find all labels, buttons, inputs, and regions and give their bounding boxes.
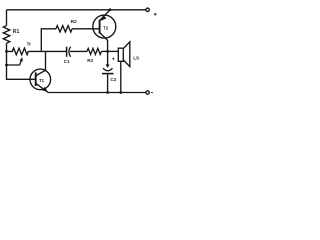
left vertical wire xyxy=(6,10,8,26)
wire R2 drop xyxy=(41,29,56,52)
svg-text:R2: R2 xyxy=(71,19,77,25)
capacitor C2 lead from node C xyxy=(107,51,109,66)
speaker LS horn xyxy=(123,42,130,67)
wire T1 collector riser xyxy=(45,51,47,70)
resistor R3 xyxy=(87,48,102,54)
T1 emitter diagonal xyxy=(36,83,48,92)
capacitor C2 curved plate xyxy=(103,68,113,71)
trimmer resistor Tr body xyxy=(7,48,29,55)
wire node C to speaker xyxy=(108,50,119,52)
wire R2 to T2 base xyxy=(72,28,100,30)
transistor T1 circle xyxy=(30,69,51,90)
C2 polarity plus mark xyxy=(112,58,115,61)
wire node A down to node B xyxy=(6,51,8,65)
Tr wiper arm wire xyxy=(7,59,23,65)
capacitor C1 left plate xyxy=(66,47,68,57)
T2 emitter diagonal xyxy=(100,10,110,21)
capacitor C1 curved plate xyxy=(69,47,71,57)
positive supply terminal xyxy=(146,8,149,11)
bottom rail junction dot speaker xyxy=(119,91,122,94)
wire node B down and right to T1 base xyxy=(7,65,36,79)
svg-text:R1: R1 xyxy=(13,29,20,35)
negative supply terminal xyxy=(146,91,149,94)
T1 emitter arrowhead xyxy=(42,87,48,92)
T2 emitter arrowhead xyxy=(101,15,107,21)
C2 lead arrowhead xyxy=(106,64,110,68)
T1 collector diagonal xyxy=(36,70,46,75)
svg-text:T1: T1 xyxy=(39,78,45,83)
node B junction dot (wiper tap) xyxy=(5,64,8,67)
C2 lead to bottom rail xyxy=(107,74,109,92)
svg-text:Tr: Tr xyxy=(27,41,32,46)
resistor R2 xyxy=(56,26,72,32)
wire C1 to R3 xyxy=(70,50,87,52)
mid wire Tr to C1 xyxy=(28,50,66,52)
svg-text:R3: R3 xyxy=(87,58,93,63)
T2 collector diagonal xyxy=(100,33,108,52)
bottom rail wire xyxy=(48,92,146,94)
wire R3 to node C xyxy=(102,50,108,52)
minus mark at terminal xyxy=(151,92,153,94)
wire R1 to node A xyxy=(6,43,8,51)
svg-text:LS: LS xyxy=(133,55,139,60)
T1 base bar xyxy=(35,72,37,86)
speaker LS driver rectangle xyxy=(118,48,123,61)
top rail wire xyxy=(7,9,146,11)
svg-text:C2: C2 xyxy=(110,77,116,82)
top rail junction dot (T2 emitter) xyxy=(109,8,112,11)
svg-text:T2: T2 xyxy=(103,25,109,30)
node C junction dot xyxy=(106,50,109,53)
resistor R1 xyxy=(3,26,10,44)
capacitor C2 straight plate xyxy=(102,73,114,75)
bottom rail junction dot C2 xyxy=(106,91,109,94)
speaker lead to bottom rail xyxy=(120,61,122,92)
node A junction dot xyxy=(5,50,8,53)
transistor T2 circle xyxy=(93,15,116,38)
plus mark at terminal xyxy=(154,13,157,16)
T2 base bar xyxy=(99,20,101,34)
Tr wiper arrowhead xyxy=(20,57,23,61)
svg-text:C1: C1 xyxy=(64,59,70,64)
